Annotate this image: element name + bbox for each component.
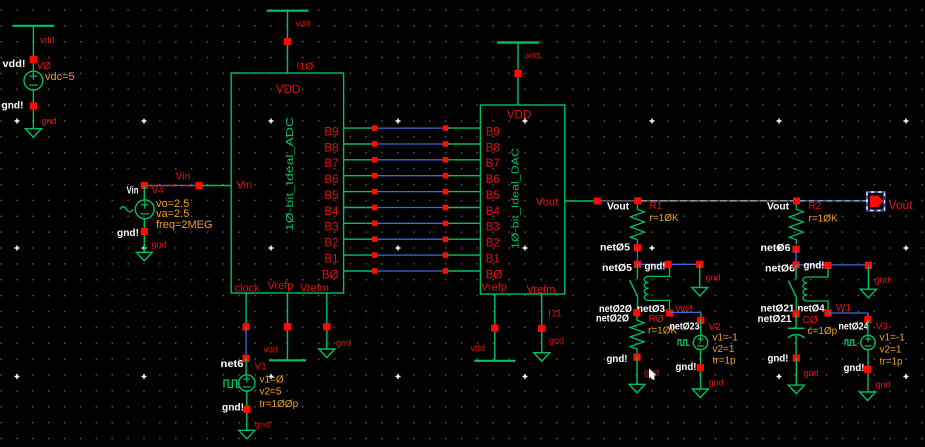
ADC pin B0 [322, 269, 339, 281]
vdd net label (Vrefp DAC) [471, 343, 486, 353]
svg-text:Vout: Vout [607, 201, 629, 213]
V1 parameters [260, 375, 299, 411]
DAC pin B3 [486, 222, 500, 234]
ADC pin Vrefm [300, 283, 329, 295]
pin Vout label [889, 198, 914, 212]
wire Vout highlighted segment [800, 200, 866, 202]
gnd net label (V3) [876, 380, 891, 390]
svg-text:v1=-1: v1=-1 [713, 333, 739, 344]
gnd net label (V4) [152, 240, 167, 250]
svg-text:netØ4: netØ4 [798, 303, 825, 315]
ground symbol (Vrefm ADC) [319, 349, 335, 358]
wire bus bit B1 [344, 252, 481, 258]
gnd net label [42, 116, 57, 126]
svg-text:I1Ø: I1Ø [297, 61, 314, 73]
svg-text:B5: B5 [486, 190, 500, 202]
svg-text:netØ23: netØ23 [670, 321, 700, 333]
svg-text:Vin: Vin [127, 184, 139, 196]
svg-text:gnd: gnd [255, 420, 270, 430]
svg-text:B3: B3 [324, 222, 338, 234]
node net021 / net04 [761, 303, 825, 318]
wire net6 [245, 327, 247, 359]
node gnd! (C0) [768, 353, 800, 365]
voltage source V0 vdc=5 [24, 71, 75, 90]
svg-text:B1: B1 [324, 253, 338, 265]
DAC pin Vrefp [481, 282, 507, 294]
svg-text:B6: B6 [486, 174, 500, 186]
net label Vin [176, 170, 191, 182]
svg-text:B9: B9 [324, 126, 338, 138]
wire R0 to gnd [636, 357, 638, 384]
ground symbol (R0) [629, 384, 645, 393]
junction gnd branch (W1) [865, 262, 872, 269]
svg-text:gnd!: gnd! [676, 361, 697, 373]
svg-text:Vrefm: Vrefm [300, 283, 329, 295]
wire bus bit B5 [344, 189, 481, 195]
svg-text:BØ: BØ [322, 269, 339, 281]
svg-text:vdd: vdd [526, 50, 541, 60]
ADC pin B4 [324, 206, 339, 218]
svg-text:R2: R2 [809, 201, 822, 212]
ADC pin Vin [237, 180, 253, 192]
svg-text:I11: I11 [548, 308, 562, 320]
wire net05 [636, 248, 638, 264]
wire bus bit B7 [344, 157, 481, 163]
svg-text:VDD: VDD [276, 84, 300, 96]
DAC pin B5 [486, 190, 500, 202]
svg-text:vdd: vdd [40, 35, 55, 45]
ADC pin B9 [324, 126, 338, 138]
svg-text:v2=1: v2=1 [880, 345, 902, 356]
svg-text:v1=Ø: v1=Ø [260, 375, 284, 386]
svg-text:netØ6: netØ6 [765, 262, 795, 274]
junction W0 coil bottom [666, 310, 673, 317]
wire bus bit B8 [344, 141, 481, 147]
wire Vout rail (gray) [600, 200, 868, 202]
svg-text:B5: B5 [324, 190, 338, 202]
junction R1 top [634, 197, 641, 204]
wire Vrefm down (DAC) [538, 294, 545, 353]
vdd symbol above DAC [497, 43, 539, 106]
svg-text:B6: B6 [324, 174, 338, 186]
node gnd! (V3) [844, 362, 872, 374]
ADC pin VDD [276, 84, 300, 96]
wire bus bit B9 [344, 125, 481, 131]
wire DAC Vout stub [565, 200, 598, 202]
svg-text:vdd: vdd [264, 345, 279, 355]
instance label I11 [548, 308, 562, 320]
junction gnd branch [696, 261, 703, 268]
svg-text:netØ5: netØ5 [602, 262, 632, 274]
node net06 lower [765, 261, 800, 274]
ADC pin B2 [324, 238, 338, 250]
wire Vrefm down (ADC) [323, 293, 330, 349]
svg-text:WØ: WØ [676, 304, 693, 315]
pin Vout (selected output pin) [867, 192, 885, 211]
voltage source V3 (vpulse) [845, 319, 875, 349]
vdd symbol (V0 branch) [12, 26, 54, 71]
relay W0 label [676, 304, 693, 315]
node net021 second [758, 313, 792, 325]
svg-text:netØ6: netØ6 [761, 242, 791, 254]
V3 parameters [880, 333, 906, 368]
ADC body text [284, 116, 296, 231]
wire Vrefp down (ADC) [284, 293, 291, 360]
V2 parameters [713, 333, 739, 367]
wire C0 to gnd [795, 358, 797, 385]
junction clock [243, 323, 250, 330]
svg-text:Vout: Vout [767, 201, 789, 213]
svg-text:tr=1p: tr=1p [713, 356, 737, 367]
junction Vin wire [195, 182, 202, 189]
svg-text:r=1ØK: r=1ØK [809, 214, 839, 225]
node gnd! (R0) [607, 353, 641, 365]
svg-text:B1: B1 [486, 253, 500, 265]
voltage source V3 label [876, 322, 889, 333]
svg-text:v2=5: v2=5 [260, 387, 282, 398]
wire V1 to gnd [246, 390, 248, 430]
svg-text:1Ø-bit_Ideal_ADC: 1Ø-bit_Ideal_ADC [284, 116, 296, 231]
resistor R2 [789, 201, 838, 245]
ADC pin B5 [324, 190, 338, 202]
relay W1 [788, 265, 828, 314]
svg-text:B2: B2 [324, 238, 338, 250]
svg-text:gnd!: gnd! [768, 353, 789, 365]
mouse cursor [649, 369, 657, 381]
ground symbol (V4) [136, 252, 152, 261]
svg-text:B4: B4 [486, 206, 501, 218]
svg-text:clock: clock [235, 283, 261, 295]
node net020 / net03 [599, 303, 665, 316]
svg-text:r=1ØK: r=1ØK [650, 213, 680, 224]
svg-text:Vin: Vin [237, 180, 253, 192]
svg-text:B9: B9 [486, 126, 500, 138]
svg-text:Vrefp: Vrefp [481, 282, 507, 294]
junction W1 coil bottom [824, 309, 831, 316]
voltage source V2 (vpulse) [678, 320, 708, 349]
node Vout (right) [767, 201, 789, 213]
DAC pin B2 [486, 238, 500, 250]
wire bus bit B4 [344, 205, 481, 211]
svg-text:V2: V2 [709, 322, 722, 333]
svg-text:gnd: gnd [706, 273, 721, 283]
wire V0 to gnd [32, 90, 34, 129]
vdd net label (Vrefp ADC) [264, 345, 279, 355]
svg-text:B7: B7 [486, 158, 500, 170]
svg-text:gnd: gnd [804, 368, 819, 378]
junction V2 top [697, 317, 704, 324]
node gnd! (V2) [676, 361, 704, 373]
wire to ADC Vin pin [202, 185, 231, 187]
svg-text:vdd: vdd [296, 19, 311, 29]
svg-text:netØ2Ø: netØ2Ø [596, 313, 629, 325]
node net6 [221, 355, 250, 370]
node gnd! [2, 100, 38, 112]
svg-text:netØ5: netØ5 [600, 242, 630, 254]
svg-text:B2: B2 [486, 238, 500, 250]
svg-text:gnd: gnd [152, 240, 167, 250]
svg-text:gnd: gnd [709, 378, 724, 388]
svg-text:vdd!: vdd! [3, 58, 26, 70]
voltage source V0 label [37, 61, 52, 72]
wire bus bit B6 [344, 173, 481, 179]
voltage source V2 label [709, 322, 722, 333]
node Vout (left) [607, 201, 629, 213]
svg-text:freq=2MEG: freq=2MEG [156, 219, 213, 231]
op-amp U2: 10-bit ideal DAC box [480, 105, 564, 294]
node net023 [670, 321, 700, 333]
wire V2 to gnd [700, 350, 702, 389]
wire to gnd! node [637, 263, 699, 265]
wire net06 [795, 249, 797, 265]
node net05 lower [602, 261, 641, 274]
gnd net label (W1 gnd) [875, 275, 890, 285]
svg-text:Vin: Vin [176, 170, 191, 182]
voltage source V1 label [255, 362, 268, 373]
svg-text:V3: V3 [876, 322, 889, 333]
node gnd! (V1) [222, 402, 250, 414]
DAC pin B1 [486, 253, 500, 265]
wire W0 coil to V2 [670, 312, 701, 317]
node vdd! [3, 58, 26, 70]
svg-text:V1: V1 [255, 362, 268, 373]
DAC body text [510, 148, 522, 249]
svg-text:v2=1: v2=1 [713, 344, 735, 355]
svg-text:V4: V4 [152, 186, 165, 197]
junction ADC VDD [284, 38, 291, 45]
ground symbol (V2) [692, 389, 708, 398]
wire V4 to gnd [143, 219, 145, 253]
svg-text:RØ: RØ [649, 314, 664, 325]
ADC pin B6 [324, 174, 338, 186]
vdd net label [40, 35, 55, 45]
wire W1 coil to V3 [828, 313, 868, 316]
node net06 upper [761, 242, 800, 254]
svg-text:gnd: gnd [875, 275, 890, 285]
ADC pin B1 [324, 253, 338, 265]
ground symbol (W1 gnd) [860, 289, 876, 298]
ground symbol (V1) [239, 430, 255, 439]
gnd net label (Vrefm DAC) [549, 336, 564, 346]
ground symbol (Vrefm DAC) [534, 353, 550, 362]
gnd net label (C0) [804, 368, 819, 378]
DAC pin B9 [486, 126, 500, 138]
relay W0 [630, 264, 670, 313]
junction DAC VDD [514, 70, 521, 77]
DAC pin B0 [486, 269, 503, 281]
svg-text:gnd!: gnd! [645, 261, 666, 273]
voltage source V1 (vpulse) [224, 358, 255, 391]
wire ADC clock down [245, 293, 247, 327]
svg-text:gnd!: gnd! [607, 353, 628, 365]
wire Vin (selected, dashed) [148, 185, 197, 187]
DAC pin VDD [507, 110, 531, 122]
node gnd! (V4) [117, 227, 148, 239]
svg-text:B8: B8 [324, 142, 338, 154]
svg-text:B7: B7 [324, 158, 338, 170]
svg-text:c=1Øp: c=1Øp [808, 326, 838, 337]
capacitor C0 [788, 314, 838, 358]
node net05 upper [600, 242, 641, 254]
wire bus bit B2 [344, 236, 481, 242]
svg-text:gnd!: gnd! [844, 362, 865, 374]
svg-text:Vout: Vout [889, 198, 914, 212]
svg-text:Vrefm: Vrefm [527, 284, 556, 296]
svg-text:tr=1p: tr=1p [880, 357, 904, 368]
svg-text:Vrefp: Vrefp [268, 280, 294, 292]
relay W1 label [836, 303, 851, 314]
svg-text:gnd!: gnd! [222, 402, 244, 414]
wire to gnd! node (W1) [796, 264, 868, 266]
DAC pin B6 [486, 174, 500, 186]
svg-text:1Ø-bit_Ideal_DAC: 1Ø-bit_Ideal_DAC [510, 148, 522, 249]
svg-text:gnd: gnd [42, 116, 57, 126]
wire gnd branch down [699, 264, 701, 287]
node net024 [839, 321, 869, 333]
svg-text:CØ: CØ [803, 315, 818, 326]
node net020 second [596, 313, 629, 325]
node Vin at V4 [127, 184, 139, 196]
voltage source V4 (vsin) [120, 186, 154, 219]
ADC pin Vrefp [268, 280, 294, 292]
wire bus bit B3 [344, 221, 481, 227]
svg-text:net6: net6 [221, 358, 244, 370]
svg-text:vdc=5: vdc=5 [45, 71, 75, 83]
voltage source V4 label [152, 186, 165, 197]
svg-text:gnd: gnd [549, 336, 564, 346]
DAC pin B8 [486, 142, 500, 154]
vdd symbol (Vrefp DAC) [474, 360, 515, 362]
svg-text:Vout: Vout [536, 197, 558, 209]
wire gnd branch down (W1) [867, 265, 869, 289]
wire junction on V0 top [30, 56, 37, 63]
DAC pin Vout [536, 197, 558, 209]
svg-text:gnd: gnd [336, 338, 351, 348]
svg-text:gnd!: gnd! [2, 100, 24, 112]
svg-text:gnd: gnd [876, 380, 891, 390]
gnd net label (R0) [644, 368, 659, 378]
ground symbol (V0) [25, 129, 41, 138]
gnd net label (V2) [709, 378, 724, 388]
junction V3 top [864, 316, 871, 323]
svg-text:netØ21: netØ21 [758, 313, 792, 325]
instance label I10 [297, 61, 314, 73]
svg-text:B8: B8 [486, 142, 500, 154]
svg-text:gnd!: gnd! [117, 227, 139, 239]
gnd net label (W0) [706, 273, 721, 283]
vdd net label (DAC top) [526, 50, 541, 60]
junction R2 top [793, 198, 800, 205]
svg-text:BØ: BØ [486, 269, 503, 281]
gnd net label (Vrefm ADC) [336, 338, 351, 348]
DAC pin B7 [486, 158, 500, 170]
wire Vrefp down (DAC) [491, 294, 498, 361]
svg-text:B3: B3 [486, 222, 500, 234]
svg-text:v1=-1: v1=-1 [880, 333, 906, 344]
node gnd! (W0 coil) [645, 261, 672, 273]
V4 parameters [156, 198, 213, 231]
vdd symbol (Vrefp ADC) [269, 359, 306, 361]
svg-text:R1: R1 [650, 201, 663, 212]
resistor R0 [630, 314, 678, 354]
ground symbol (V3) [860, 392, 876, 401]
ADC pin clock [235, 283, 261, 295]
svg-text:vdd: vdd [471, 343, 486, 353]
svg-text:tr=1ØØp: tr=1ØØp [260, 399, 299, 410]
vdd net label (ADC top) [296, 19, 311, 29]
ADC pin B7 [324, 158, 338, 170]
svg-text:B4: B4 [324, 206, 339, 218]
wire bus bit B0 [344, 268, 481, 274]
svg-text:gnd!: gnd! [804, 260, 825, 272]
gnd net label (V1) [255, 420, 270, 430]
svg-text:netØ24: netØ24 [839, 321, 869, 333]
DAC pin Vrefm [527, 284, 556, 296]
ground symbol (W0) [692, 288, 708, 297]
node gnd! (W1 coil) [804, 260, 832, 272]
junction V4 plus [141, 182, 148, 189]
op-amp U1: 10-bit ideal ADC box [231, 73, 343, 293]
resistor R1 [630, 201, 679, 245]
wire V3 to gnd [867, 350, 869, 392]
ADC pin B8 [324, 142, 338, 154]
ADC pin B3 [324, 222, 338, 234]
vdd symbol above ADC [267, 11, 309, 73]
svg-text:VDD: VDD [507, 110, 531, 122]
DAC pin B4 [486, 206, 501, 218]
junction Vout [594, 198, 601, 205]
ground symbol (C0) [788, 385, 804, 394]
